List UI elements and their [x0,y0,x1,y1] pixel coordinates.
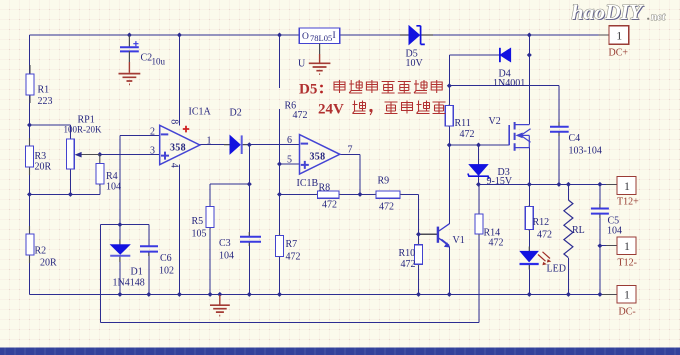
load resistor RL (zigzag) [564,200,573,258]
zener diode D3 [468,164,489,179]
svg-text:20R: 20R [40,258,57,269]
potentiometer RP1 [67,139,100,169]
label R6 472 [285,101,308,122]
svg-text:472: 472 [286,252,301,263]
svg-text:4: 4 [169,163,180,168]
resistor R7 [276,233,284,258]
svg-text:20R: 20R [35,162,52,173]
svg-text:R7: R7 [286,239,298,250]
svg-text:24V: 24V [318,102,344,118]
wire IC1A pin8 [178,35,180,125]
label R5 105 [192,216,207,240]
svg-text:haoDIY: haoDIY [572,0,644,24]
wire gate feed row y85.7 [449,86,559,126]
op-amp IC1A red plus (pin8) [183,126,189,133]
wire RP1 bottom row [30,170,100,195]
svg-text:10u: 10u [152,57,166,67]
capacitor C5 [591,204,609,218]
svg-text:78L05: 78L05 [310,33,332,43]
svg-text:2: 2 [150,127,155,138]
mosfet V2 [509,122,530,151]
label RP1 100R-20K [64,115,103,135]
wire D1 bottom [119,262,121,294]
label C3 104 [219,238,234,262]
svg-text:D2: D2 [230,108,242,119]
wire IC1B output [340,154,361,194]
svg-text:D1: D1 [131,267,143,278]
label D1 1N4148 [113,267,145,289]
resistor R9 [375,191,402,198]
terminal DC- [617,286,636,304]
svg-text:DC-: DC- [619,307,636,318]
wire R8 row [280,193,377,195]
wire D2 junction down [248,145,250,236]
wire C4 bottom [558,132,560,184]
wire left rail [29,35,31,294]
svg-text:C4: C4 [569,133,581,144]
svg-text:7: 7 [348,145,353,156]
svg-text:472: 472 [379,202,394,213]
wire wiper row to IC1A pin3 [100,154,160,156]
terminal T12+ [617,177,636,195]
resistor R1 [26,65,34,103]
svg-text:R1: R1 [38,85,50,96]
red note line1: D5: plus hanzi 电源电压不超过 [299,80,442,98]
wire T12- stub [600,245,606,247]
wire D4 left arm [449,55,500,86]
svg-text:R3: R3 [35,151,47,162]
label R11 472 [455,118,475,140]
78L05 regulator U [299,28,339,44]
label R3 20R [35,151,52,173]
svg-text:472: 472 [537,230,552,241]
svg-text:100R-20K: 100R-20K [64,125,103,135]
wire C5 column [599,184,601,294]
transistor V1 [438,224,450,248]
resistor R14 [475,213,483,236]
wire IC1B pin5 stub [280,163,300,165]
wire RL column [567,184,569,294]
wire IC1A pin2 feedback [120,135,160,224]
ground under C2 [119,51,141,84]
resistor R5 [206,206,214,229]
svg-text:10V: 10V [406,58,424,69]
svg-text:1N4001: 1N4001 [493,78,525,89]
svg-text:6: 6 [287,135,292,146]
svg-text:358: 358 [310,152,326,163]
svg-text:I: I [333,31,336,41]
wire R10 column [418,234,420,294]
svg-text:104: 104 [106,182,121,193]
svg-text:358: 358 [170,143,186,154]
resistor R11 [445,104,453,127]
diode D2 [224,135,247,154]
svg-text:R12: R12 [533,217,550,228]
wire IC1A pin4 to rail [178,165,180,295]
resistor R2 [26,226,34,263]
wire R6 bottom to R8 row [279,109,281,235]
resistor R12 [525,205,533,231]
svg-text:472: 472 [489,238,504,249]
svg-text:1: 1 [624,239,630,253]
svg-text:223: 223 [38,96,53,107]
label R4 104 [106,171,121,193]
label R14 472 [484,228,504,249]
svg-text:C2: C2 [141,53,153,64]
svg-text:C6: C6 [160,253,172,264]
svg-text:V1: V1 [453,235,465,246]
bottom blue bar [0,348,680,355]
svg-text:5: 5 [287,155,292,166]
svg-text:O: O [302,32,309,42]
wire R12 LED column [528,184,530,294]
wire R14 top stub [478,184,480,214]
label C2 10u [141,53,166,67]
wire R11 column [448,86,450,145]
svg-text:U: U [298,59,306,70]
svg-text:C3: C3 [219,238,231,249]
resistor R8 [316,191,341,198]
svg-text:IC1A: IC1A [189,107,212,118]
svg-text:R2: R2 [35,246,47,257]
svg-text:1: 1 [624,179,630,193]
wire D1 C6 bracket [101,225,149,246]
svg-text:472: 472 [401,259,416,270]
svg-text:R8: R8 [319,183,331,194]
wire C6 bottom [148,252,150,294]
capacitor C4 [550,122,569,136]
svg-text:472: 472 [460,129,475,140]
svg-text:R9: R9 [378,176,390,187]
svg-text:104: 104 [607,226,622,237]
label C6 102 [159,253,174,277]
wire D3 column [478,145,480,184]
label R12 472 [533,217,553,241]
svg-text:R11: R11 [455,118,471,129]
svg-text:9-15V: 9-15V [487,176,513,187]
logo haoDIY.net [572,0,667,25]
wire R7 bottom to rail [279,257,281,294]
svg-text:3: 3 [150,146,155,157]
svg-text:103-104: 103-104 [569,146,602,157]
wire V1 base lead [419,233,438,235]
wire D5 to rail segment [419,34,529,36]
wire IC1A output to D2 [200,144,231,146]
svg-text:V2: V2 [489,116,501,127]
wire R5 bottom [209,228,211,294]
label R1 223 [38,85,53,108]
label D5 10V [406,49,424,70]
terminal T12- [617,237,636,255]
terminal DC+ [609,26,629,44]
78L05 box text [302,31,336,43]
label R7 472 [286,239,301,263]
resistor R4 [96,163,104,186]
diode D1 [110,240,130,263]
terminal pin stubs (dark) [599,35,618,294]
svg-text:LED: LED [547,264,566,275]
svg-text:102: 102 [159,266,174,277]
op-amp IC1A [160,125,200,164]
label R10 472 [399,248,416,270]
wire R6 column x280 top [279,35,281,88]
svg-text:1: 1 [207,136,212,147]
label R8 472 [319,183,338,211]
svg-text:R10: R10 [399,248,416,259]
wire top rail right of 78L05 to DC+ [340,34,599,36]
svg-text:8: 8 [169,119,180,124]
svg-text:472: 472 [322,200,337,211]
wire bottom ground rail [30,293,600,295]
wire V1 collector up [448,145,450,224]
wire lower return to R14 [101,236,479,322]
label D4 1N4001 [493,69,525,90]
wire V2 source down [528,148,530,185]
wire V1 emitter down [448,246,450,294]
wire C3 bottom [248,242,250,294]
wire 9-15V rail [479,183,607,185]
svg-text:1N4148: 1N4148 [113,278,145,289]
svg-text:T12-: T12- [618,258,637,269]
wire R5 branch [210,184,249,206]
label C5 104 [607,216,622,237]
ground under 78L05 [309,44,331,75]
svg-text:DC+: DC+ [609,48,629,59]
wire D4 right / V2 drain column [528,35,530,125]
label R2 20R [35,246,58,269]
capacitor C3 [240,232,261,246]
svg-text:IC1B: IC1B [297,178,319,189]
svg-text:T12+: T12+ [617,197,639,208]
svg-text:105: 105 [192,229,207,240]
label D3 9-15V [487,167,513,187]
label R9 472 [378,176,395,213]
svg-text:104: 104 [219,251,234,262]
svg-text:R4: R4 [106,171,118,182]
resistor R3 [26,138,34,175]
svg-text:D5: D5 [299,82,317,98]
label C4 103-104 [569,133,602,157]
svg-text:net: net [651,11,666,23]
wire top rail left [30,34,300,36]
op-amp IC1B [300,135,340,174]
diode D4 [500,48,511,62]
capacitor C6 [140,246,158,256]
svg-text:RL: RL [572,225,585,236]
LED D? [520,247,552,270]
diode D5 (zener 10V) [400,26,433,45]
svg-text:472: 472 [293,110,308,121]
resistor R10 [415,243,423,266]
svg-text:R5: R5 [192,216,204,227]
wire RP1 top row [30,125,71,139]
svg-text:1: 1 [624,288,630,302]
red note line2: 24V plus hanzi 时，直接短路 [318,101,446,118]
ground center bottom [210,295,230,316]
wire gate row [449,144,509,146]
wire R9 right to V1 base [400,194,419,234]
capacitor C2 [120,36,139,52]
svg-text:1: 1 [616,29,622,43]
wire bracket left arm down [100,225,102,323]
wire D2 to IC1B pin6 [241,144,300,146]
